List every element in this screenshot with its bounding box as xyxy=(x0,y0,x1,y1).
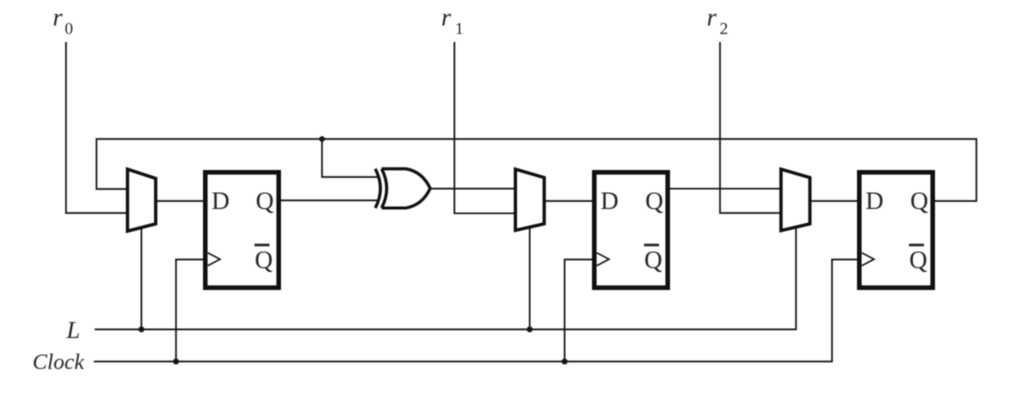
svg-text:r: r xyxy=(53,5,63,32)
svg-text:r: r xyxy=(707,5,717,32)
svg-text:Q: Q xyxy=(645,188,663,215)
svg-text:Q: Q xyxy=(256,188,274,215)
svg-text:D: D xyxy=(601,188,619,215)
svg-text:L: L xyxy=(66,317,81,344)
svg-text:D: D xyxy=(866,188,884,215)
svg-text:1: 1 xyxy=(455,19,464,38)
svg-text:D: D xyxy=(212,188,230,215)
svg-text:2: 2 xyxy=(720,19,729,38)
svg-text:Clock: Clock xyxy=(33,349,86,374)
svg-text:Q: Q xyxy=(910,188,928,215)
svg-text:r: r xyxy=(441,5,451,32)
svg-text:Q: Q xyxy=(644,247,662,274)
svg-text:Q: Q xyxy=(909,247,927,274)
svg-text:0: 0 xyxy=(65,19,74,38)
svg-text:Q: Q xyxy=(255,247,273,274)
